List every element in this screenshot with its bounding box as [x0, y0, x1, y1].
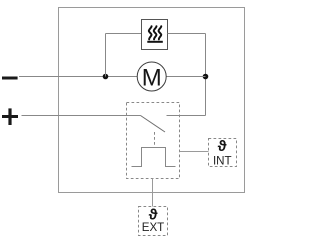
svg-text:ϑ: ϑ [218, 138, 227, 155]
switch blade [141, 116, 166, 133]
node junction dot right [203, 74, 209, 80]
heater element box [142, 20, 168, 50]
heater symbol underline [147, 41, 163, 43]
terminal minus [2, 77, 18, 80]
heater symbol waves [149, 26, 161, 39]
wire to internal sensor [180, 151, 209, 153]
svg-text:M: M [142, 65, 162, 92]
wire motor to right node [166, 76, 205, 78]
internal sensor dashed box [209, 139, 237, 167]
external sensor dashed box [139, 207, 168, 236]
wire switch fixed contact [167, 115, 206, 117]
dashed actuator link [154, 132, 156, 147]
wire riser to heater [105, 34, 107, 77]
svg-text:INT: INT [213, 154, 232, 167]
wire minus to motor [19, 76, 137, 78]
wire right drop [205, 34, 207, 116]
svg-text:EXT: EXT [142, 221, 165, 234]
wire to heater left [106, 33, 142, 35]
node junction dot left [103, 74, 109, 80]
pulse waveform [132, 148, 176, 167]
terminal plus [2, 108, 18, 125]
enclosure outline [59, 8, 245, 193]
wire to external sensor [152, 179, 154, 207]
wire heater right [168, 33, 206, 35]
thermostat controller dashed box [127, 103, 180, 179]
motor M circle [137, 62, 166, 91]
wire plus to switch pivot [22, 115, 141, 117]
